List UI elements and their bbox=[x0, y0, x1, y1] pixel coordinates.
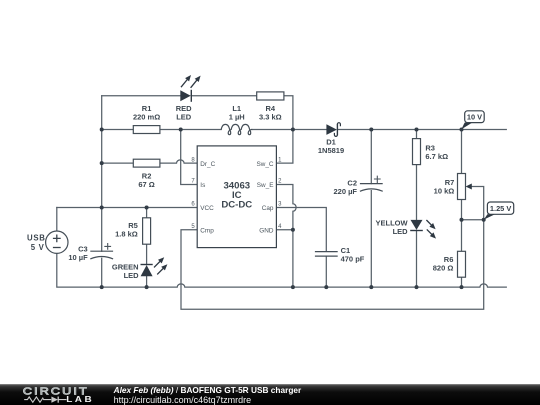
wire top rail right segment (R4 to corner, down to rail2) bbox=[284, 96, 293, 130]
node gnd green LED bbox=[145, 285, 149, 289]
wire rail2 left (input vertical to R1) bbox=[102, 129, 134, 131]
IC pin numbers bbox=[191, 157, 282, 230]
capacitor C2 plates bbox=[360, 184, 383, 192]
wire ground rail with two hops bbox=[102, 284, 507, 287]
wire rail2 R1 to L1 bbox=[160, 129, 221, 131]
svg-text:6.7 kΩ: 6.7 kΩ bbox=[425, 152, 448, 161]
svg-text:Dr_C: Dr_C bbox=[200, 161, 215, 168]
USB source minus sign bbox=[53, 247, 61, 249]
node rail2/R1 left bbox=[100, 128, 104, 132]
wire node to R6 bbox=[461, 220, 463, 252]
svg-text:LED: LED bbox=[124, 271, 140, 280]
green LED emission arrows bbox=[154, 261, 161, 268]
voltage source USB circle bbox=[46, 231, 68, 253]
svg-text:LAB: LAB bbox=[66, 395, 92, 404]
resistor R4 bbox=[257, 92, 284, 100]
red LED emission arrows bbox=[181, 79, 188, 88]
resistor R1 bbox=[133, 126, 160, 134]
IC U1 34063 box bbox=[197, 146, 276, 248]
svg-text:220 µF: 220 µF bbox=[334, 187, 358, 196]
svg-text:http://circuitlab.com/c46tq7tz: http://circuitlab.com/c46tq7tzmrdre bbox=[114, 395, 252, 405]
capacitor C3 plates bbox=[90, 251, 113, 259]
svg-text:470 pF: 470 pF bbox=[341, 254, 365, 263]
svg-text:1.8 kΩ: 1.8 kΩ bbox=[115, 230, 138, 239]
svg-text:220 mΩ: 220 mΩ bbox=[133, 113, 160, 122]
svg-text:5 V: 5 V bbox=[31, 243, 45, 252]
svg-text:LED: LED bbox=[176, 113, 192, 122]
node gnd IC bbox=[291, 285, 295, 289]
node gnd yellow LED bbox=[415, 285, 419, 289]
svg-text:Alex Feb (febb) / BAOFENG GT-5: Alex Feb (febb) / BAOFENG GT-5R USB char… bbox=[113, 385, 302, 395]
svg-text:1N5819: 1N5819 bbox=[318, 146, 344, 155]
wire VCC rail bbox=[57, 207, 197, 209]
svg-text:1 µH: 1 µH bbox=[229, 113, 245, 122]
svg-text:LED: LED bbox=[393, 227, 409, 236]
node VCC C3 bbox=[100, 206, 104, 210]
node R2 left bbox=[100, 161, 104, 165]
node VCC R5 bbox=[145, 206, 149, 210]
wire C2 branch bottom bbox=[370, 191, 372, 288]
wire R7 wiper bbox=[469, 187, 484, 220]
capacitor C3 plus bbox=[104, 243, 111, 250]
wire R2 rail left bbox=[102, 162, 134, 164]
svg-text:DC-DC: DC-DC bbox=[221, 200, 252, 211]
node gnd R6 bbox=[460, 285, 464, 289]
potentiometer R7 body bbox=[458, 174, 466, 200]
svg-text:10 µF: 10 µF bbox=[68, 253, 88, 262]
wire C3 branch bbox=[101, 208, 103, 288]
node flag 1.25 V bbox=[484, 202, 514, 220]
svg-text:GND: GND bbox=[259, 227, 274, 234]
yellow LED emission arrows bbox=[426, 220, 432, 226]
USB source plus sign bbox=[53, 235, 61, 243]
wire top rail mid segment (LED cathode to R4) bbox=[191, 95, 256, 97]
wire yellow LED to ground bbox=[416, 231, 418, 288]
wire R5 branch top bbox=[146, 208, 148, 218]
wire R7 bottom to node bbox=[461, 200, 463, 220]
LED green (vertical, pointing up) bbox=[141, 257, 168, 276]
wire Cmp pin5 loop bbox=[181, 220, 484, 309]
inductor L1 bbox=[221, 124, 252, 134]
wire R5 to green LED bbox=[146, 244, 148, 264]
wire rail2 D1 to right end (10V rail) bbox=[338, 129, 506, 131]
wire pin3 Cap to C1 bbox=[276, 208, 326, 252]
node R1-L1 / pin7 bbox=[179, 128, 183, 132]
wire pin2 Sw_E down to pin4 with hop bbox=[276, 185, 296, 230]
wire R6 bottom to ground bbox=[461, 277, 463, 287]
wire R3 branch top bbox=[416, 130, 418, 139]
svg-text:Cmp: Cmp bbox=[200, 227, 214, 234]
capacitor C1 plates bbox=[315, 252, 338, 257]
wire pin4 GND stub bbox=[276, 230, 293, 287]
node gnd C2 bbox=[369, 285, 373, 289]
LED yellow (vertical, pointing down) bbox=[410, 220, 436, 239]
resistor R3 bbox=[413, 139, 421, 165]
wire green LED to ground bbox=[146, 276, 148, 287]
svg-text:3.3 kΩ: 3.3 kΩ bbox=[259, 113, 282, 122]
node wiper/flag bbox=[482, 218, 486, 222]
node rail2 R7 / 10V bbox=[460, 128, 464, 132]
wire C2 branch top bbox=[370, 130, 372, 184]
wire R2 to pin8 with hop bbox=[160, 160, 197, 163]
wire left input vertical bbox=[101, 96, 103, 208]
circuitlab logo resistor zigzag and diode bbox=[24, 397, 66, 402]
svg-text:10 kΩ: 10 kΩ bbox=[434, 186, 455, 195]
svg-text:USB: USB bbox=[27, 234, 46, 243]
diode D1 (schottky) bbox=[326, 123, 340, 137]
svg-text:VCC: VCC bbox=[200, 205, 214, 212]
svg-text:Cap: Cap bbox=[262, 205, 274, 212]
node rail2 C2 bbox=[369, 128, 373, 132]
svg-text:Is: Is bbox=[200, 182, 205, 189]
svg-text:10 V: 10 V bbox=[467, 113, 482, 122]
node gnd C3 bbox=[100, 285, 104, 289]
svg-text:820 Ω: 820 Ω bbox=[433, 264, 454, 273]
svg-text:Sw_E: Sw_E bbox=[257, 182, 274, 189]
LED D red (on top rail) bbox=[180, 75, 200, 102]
node R7/R6/wiper bbox=[460, 218, 464, 222]
potentiometer R7 wiper arrow bbox=[466, 184, 472, 190]
wire pin1 Sw_C to rail2 bbox=[276, 130, 293, 164]
resistor R5 bbox=[143, 218, 151, 244]
wire USB top lead bbox=[56, 208, 58, 232]
resistor R6 bbox=[458, 251, 466, 277]
resistor R2 bbox=[133, 159, 160, 167]
wire 1.25V node horizontal bbox=[462, 219, 484, 221]
wire USB bottom lead bbox=[57, 253, 102, 287]
wire rail2 L1 to D1 bbox=[252, 129, 326, 131]
svg-text:Sw_C: Sw_C bbox=[256, 161, 273, 168]
svg-text:67 Ω: 67 Ω bbox=[138, 180, 154, 189]
node rail2 R3 bbox=[415, 128, 419, 132]
wire top rail left segment bbox=[102, 95, 181, 97]
node gnd C1 bbox=[324, 285, 328, 289]
wire C1 bottom to ground bbox=[325, 256, 327, 287]
wire R3 to yellow LED bbox=[416, 165, 418, 220]
node rail2 R4/pin1 bbox=[291, 128, 295, 132]
node pin2/pin4 bbox=[291, 228, 295, 232]
node flag 10 V bbox=[461, 111, 484, 130]
IC pin labels bbox=[200, 161, 274, 235]
wire R1 node down to pin7 bbox=[181, 130, 198, 185]
capacitor C2 plus bbox=[374, 176, 381, 183]
wire R7 branch top bbox=[461, 130, 463, 174]
svg-text:1.25 V: 1.25 V bbox=[490, 204, 511, 213]
